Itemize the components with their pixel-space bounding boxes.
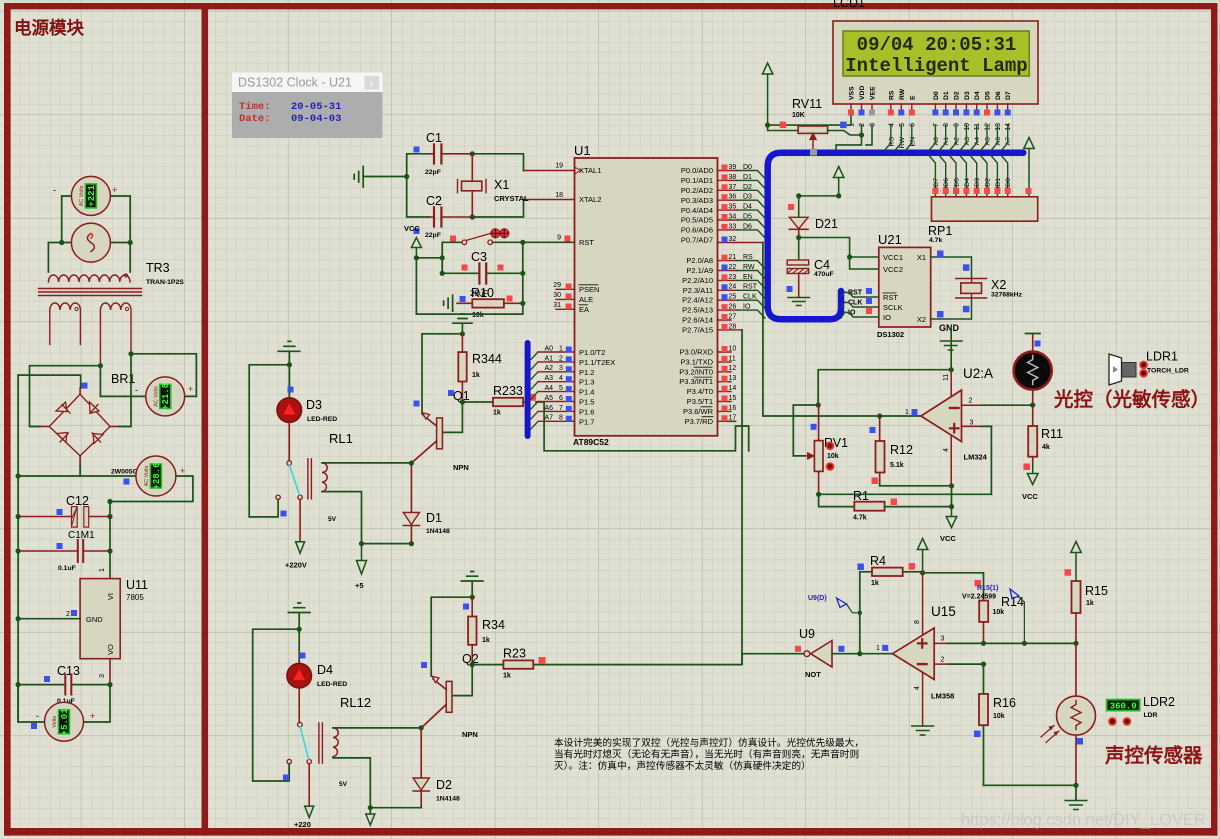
- svg-text:5V: 5V: [328, 516, 337, 523]
- svg-text:P0.1/AD1: P0.1/AD1: [681, 176, 713, 185]
- svg-text:37: 37: [729, 184, 737, 191]
- svg-text:P0.7/AD7: P0.7/AD7: [681, 236, 713, 245]
- NOT gate U9: [742, 627, 860, 679]
- svg-text:P3.4/T0: P3.4/T0: [687, 387, 713, 396]
- resistor R15: [1072, 581, 1108, 643]
- capacitor C12: [16, 494, 113, 541]
- wire A5 to P37 row: [536, 402, 749, 451]
- svg-text:RW: RW: [899, 88, 906, 100]
- border frame left: [4, 3, 11, 836]
- LED D4: [287, 629, 347, 722]
- P2 net labels: [743, 254, 758, 311]
- svg-text:10: 10: [729, 345, 737, 352]
- wire meter2 left: [100, 366, 146, 397]
- resistor R34: [468, 597, 505, 664]
- svg-text:+220V: +220V: [285, 561, 307, 570]
- svg-text:TR3: TR3: [146, 261, 170, 275]
- svg-text:x: x: [369, 78, 374, 88]
- wire VCC to R14: [923, 573, 984, 601]
- wire P27 down: [741, 330, 743, 665]
- P0 pin numbers: [729, 164, 737, 243]
- P1 state squares: [566, 347, 572, 422]
- gray square bus VEE: [810, 149, 817, 156]
- svg-text:RS: RS: [888, 90, 895, 100]
- photoresistor LDR2: [1041, 643, 1096, 785]
- svg-text:D0: D0: [743, 164, 752, 171]
- svg-text:D6: D6: [743, 223, 752, 230]
- photoresistor LDR1: [1014, 334, 1052, 408]
- svg-text:D3: D3: [964, 91, 971, 100]
- svg-text:IO: IO: [743, 304, 751, 311]
- svg-text:32: 32: [729, 236, 737, 243]
- resistor R233: [462, 384, 536, 417]
- LCD state squares: [848, 110, 854, 116]
- P0 net labels D0-D6: [743, 164, 752, 230]
- wire emitter Q2: [431, 597, 472, 676]
- svg-text:NOT: NOT: [805, 670, 821, 679]
- svg-text:R10: R10: [471, 286, 494, 300]
- svg-text:18: 18: [555, 192, 563, 199]
- svg-text:GND: GND: [939, 323, 960, 333]
- opamp U2:A: [905, 366, 1033, 486]
- svg-text:DS1302 Clock - U21: DS1302 Clock - U21: [238, 76, 352, 90]
- svg-text:Time:: Time:: [239, 101, 271, 113]
- resistor R1: [853, 489, 952, 522]
- resistor R14: [979, 595, 1024, 643]
- wire RL12 bottom row: [370, 808, 421, 814]
- svg-text:R4: R4: [870, 554, 886, 568]
- svg-text:XTAL2: XTAL2: [579, 195, 601, 204]
- wire C1C2 left column: [372, 154, 429, 217]
- svg-text:+220: +220: [294, 820, 311, 829]
- svg-text:33: 33: [729, 223, 737, 230]
- svg-text:4: 4: [943, 448, 950, 452]
- svg-text:A3: A3: [545, 375, 554, 382]
- svg-text:2: 2: [941, 657, 945, 664]
- wire RV1 bottom row: [819, 426, 992, 506]
- svg-text:https://blog.csdn.net/DIY_LOVE: https://blog.csdn.net/DIY_LOVER: [961, 811, 1206, 829]
- svg-text:Intelligent Lamp: Intelligent Lamp: [845, 55, 1027, 77]
- resistor R12: [870, 413, 913, 480]
- svg-text:2W005G: 2W005G: [111, 469, 138, 476]
- wire D21 to U21 VCC: [799, 238, 879, 270]
- svg-text:RV11: RV11: [792, 97, 822, 111]
- svg-text:P1.5: P1.5: [579, 398, 594, 407]
- opamp U15: [860, 573, 1076, 726]
- svg-text:D6: D6: [995, 91, 1002, 100]
- svg-text:LDR2: LDR2: [1143, 695, 1175, 709]
- svg-text:P1.7: P1.7: [579, 417, 594, 426]
- chip U1 AT89C52: [573, 143, 718, 447]
- svg-text:470uF: 470uF: [814, 271, 834, 278]
- svg-text:EA: EA: [579, 305, 589, 314]
- RP1 state squares: [932, 188, 1010, 194]
- svg-text:9: 9: [557, 235, 561, 242]
- DC voltmeter (+28.6): [136, 456, 185, 496]
- U1 right P0 pin lines: [718, 171, 763, 243]
- node secondary: [98, 363, 103, 368]
- svg-text:LDR1: LDR1: [1146, 350, 1178, 364]
- svg-text:E: E: [909, 95, 916, 100]
- svg-text:25: 25: [729, 294, 737, 301]
- power VCC down arrow R11: [1027, 463, 1038, 485]
- svg-text:R1: R1: [853, 489, 869, 503]
- pot RV11: [768, 97, 862, 149]
- P1 net labels A0-A7: [545, 345, 554, 421]
- svg-text:7: 7: [559, 405, 563, 412]
- svg-text:+221: +221: [87, 185, 97, 207]
- LED D3: [277, 365, 337, 461]
- svg-text:2: 2: [859, 123, 866, 127]
- svg-text:P3.2/INT0: P3.2/INT0: [679, 367, 713, 376]
- svg-text:U9: U9: [799, 627, 815, 641]
- svg-text:R11: R11: [1041, 427, 1063, 441]
- wire bridge top feed: [18, 375, 81, 388]
- P0 wire to bus: [737, 171, 765, 238]
- ground U21: [941, 327, 963, 370]
- resistor R23: [472, 647, 742, 680]
- relay RL1: [308, 431, 412, 544]
- svg-text:电源模块: 电源模块: [14, 18, 84, 38]
- svg-text:AC Volts: AC Volts: [79, 185, 85, 206]
- svg-text:10k: 10k: [472, 312, 484, 319]
- svg-text:4: 4: [888, 123, 895, 127]
- svg-text:8: 8: [943, 123, 950, 127]
- svg-text:D4: D4: [974, 91, 981, 100]
- ground below R10 inverted: [453, 314, 472, 334]
- svg-text:+: +: [112, 185, 117, 195]
- svg-text:4: 4: [559, 375, 563, 382]
- svg-text:RST: RST: [883, 293, 898, 302]
- svg-text:VCC: VCC: [940, 534, 956, 543]
- bridge rectifier BR1: [40, 388, 119, 466]
- svg-text:X1: X1: [494, 178, 509, 192]
- svg-text:光控（光敏传感）: 光控（光敏传感）: [1053, 388, 1210, 411]
- crystal X2: [931, 251, 1023, 320]
- svg-text:1: 1: [876, 645, 880, 652]
- svg-text:3: 3: [559, 365, 563, 372]
- wire emitter Q1: [422, 334, 462, 414]
- svg-text:P0.3/AD3: P0.3/AD3: [681, 196, 713, 205]
- svg-text:P0.2/AD2: P0.2/AD2: [681, 186, 713, 195]
- relay switch RL12 contact: [287, 722, 311, 806]
- svg-text:U11: U11: [126, 578, 148, 592]
- svg-text:X2: X2: [917, 315, 926, 324]
- svg-text:5V: 5V: [339, 781, 348, 788]
- svg-text:09-04-03: 09-04-03: [291, 113, 341, 125]
- svg-text:D2: D2: [985, 178, 992, 187]
- svg-text:10k: 10k: [827, 453, 839, 460]
- ground U15: [912, 726, 934, 735]
- LCD pin stubs: [851, 104, 1008, 110]
- transformer TR3 primary: [48, 275, 130, 282]
- node source left: [59, 240, 64, 245]
- transistor Q1: [411, 402, 468, 472]
- svg-text:AC Volts: AC Volts: [144, 465, 150, 486]
- svg-text:DS1302: DS1302: [877, 330, 904, 339]
- svg-text:35: 35: [729, 204, 737, 211]
- border frame bottom: [4, 828, 1218, 836]
- wire D3 bracket: [249, 365, 289, 517]
- state square bridge top: [82, 383, 88, 389]
- capacitor C11 0.1uF: [16, 540, 113, 572]
- wire R12 bottom: [880, 481, 952, 507]
- svg-text:LED-RED: LED-RED: [317, 681, 347, 688]
- svg-text:RL12: RL12: [340, 695, 371, 710]
- wire bridge bottom down: [79, 466, 81, 476]
- svg-text:GND: GND: [86, 615, 103, 624]
- svg-text:ALE: ALE: [579, 295, 593, 304]
- svg-text:P1.4: P1.4: [579, 388, 594, 397]
- svg-text:R344: R344: [472, 352, 502, 366]
- RP1 wires from bus: [929, 156, 1007, 197]
- svg-text:D5: D5: [743, 214, 752, 221]
- svg-text:D5: D5: [954, 178, 961, 187]
- svg-text:P2.4/A12: P2.4/A12: [682, 296, 713, 305]
- LCD wires into bus: [885, 125, 1008, 150]
- svg-text:16: 16: [729, 405, 737, 412]
- svg-text:A1: A1: [545, 355, 554, 362]
- svg-text:R15(1): R15(1): [977, 585, 998, 592]
- svg-text:Date:: Date:: [239, 113, 271, 125]
- svg-text:VCC: VCC: [1022, 492, 1038, 501]
- U1 right P2 pin lines: [718, 261, 743, 330]
- svg-text:C1M1: C1M1: [68, 530, 95, 541]
- svg-text:LED-RED: LED-RED: [307, 416, 337, 423]
- wire R1 junction VCC: [946, 507, 957, 528]
- svg-text:12: 12: [729, 365, 737, 372]
- svg-text:P0.0/AD0: P0.0/AD0: [681, 166, 713, 175]
- svg-text:D3: D3: [306, 398, 322, 412]
- svg-text:D21: D21: [815, 217, 838, 231]
- RP1 net labels rotated: [933, 178, 1012, 187]
- P1 pin numbers: [559, 345, 563, 421]
- svg-text:D4: D4: [743, 204, 752, 211]
- svg-text:20-05-31: 20-05-31: [291, 101, 341, 113]
- svg-text:30: 30: [553, 292, 561, 299]
- svg-text:D4: D4: [317, 663, 333, 677]
- svg-text:2: 2: [559, 355, 563, 362]
- svg-text:VCC1: VCC1: [883, 253, 903, 262]
- ground R34: [461, 572, 483, 598]
- resistor R344: [448, 334, 502, 402]
- svg-text:4: 4: [914, 686, 921, 690]
- svg-text:LM324: LM324: [964, 453, 988, 462]
- svg-text:3: 3: [970, 420, 974, 427]
- RP1 pin numbers rotated: [933, 187, 1012, 191]
- LCD net labels rotated: [888, 136, 1012, 148]
- svg-text:R15: R15: [1085, 584, 1108, 598]
- svg-text:17: 17: [729, 415, 737, 422]
- svg-text:26: 26: [729, 304, 737, 311]
- wire RST column: [416, 242, 522, 314]
- VCC arrow R15: [1071, 542, 1081, 582]
- relay switch RL1 contact: [276, 461, 302, 542]
- svg-text:3: 3: [870, 123, 877, 127]
- transistor Q2: [421, 665, 478, 739]
- regulator U11 7805: [16, 568, 149, 685]
- svg-text:U2:A: U2:A: [963, 366, 993, 381]
- svg-text:-: -: [36, 711, 39, 721]
- svg-text:19: 19: [555, 163, 563, 170]
- svg-text:10K: 10K: [792, 112, 805, 119]
- description text: [554, 736, 864, 772]
- wire bottom row LDR2: [984, 785, 1077, 800]
- svg-text:D7: D7: [1005, 91, 1012, 100]
- wire left rail: [17, 375, 19, 722]
- svg-text:RST: RST: [579, 238, 594, 247]
- power arrow below RL12: [366, 814, 375, 825]
- power +220V arrow RL12: [305, 806, 314, 818]
- svg-text:U1: U1: [574, 143, 591, 158]
- transformer TR3 secondary left: [50, 303, 81, 344]
- svg-text:8: 8: [914, 620, 921, 624]
- svg-text:A5: A5: [545, 395, 554, 402]
- svg-text:1: 1: [99, 568, 106, 572]
- diode D2: [413, 725, 460, 807]
- relay RL12: [319, 695, 421, 808]
- svg-text:1k: 1k: [482, 637, 490, 644]
- wire D4 bracket: [253, 629, 300, 781]
- svg-text:P1.1/T2EX: P1.1/T2EX: [579, 358, 615, 367]
- svg-text:EN: EN: [743, 274, 753, 281]
- VCC arrow bus right: [1024, 138, 1034, 197]
- P2 wire to bus: [737, 261, 765, 319]
- svg-text:IO: IO: [883, 313, 891, 322]
- capacitor C3: [442, 250, 523, 298]
- power +220V arrow RL1: [296, 542, 305, 554]
- svg-text:P2.5/A13: P2.5/A13: [682, 306, 713, 315]
- svg-text:23: 23: [729, 274, 737, 281]
- border frame right: [1211, 3, 1218, 836]
- node secondary right: [128, 351, 133, 356]
- ground C4: [788, 298, 810, 306]
- P1 bus taps: [531, 352, 538, 429]
- svg-text:P1.2: P1.2: [579, 368, 594, 377]
- AC voltmeter (+221): [53, 176, 117, 215]
- svg-text:R34: R34: [482, 618, 505, 632]
- svg-text:P0.4/AD4: P0.4/AD4: [681, 206, 713, 215]
- svg-text:P3.6/WR: P3.6/WR: [683, 407, 714, 416]
- svg-text:P1.3: P1.3: [579, 378, 594, 387]
- svg-text:VDD: VDD: [859, 86, 866, 100]
- wire R4 left drop: [859, 572, 861, 654]
- display 360.0: [1107, 695, 1175, 725]
- svg-text:4.7k: 4.7k: [853, 515, 867, 522]
- svg-text:11: 11: [974, 123, 981, 130]
- svg-text:24: 24: [729, 284, 737, 291]
- svg-text:VI: VI: [106, 593, 115, 600]
- svg-text:5: 5: [899, 123, 906, 127]
- svg-text:29: 29: [553, 282, 561, 289]
- svg-text:RST: RST: [743, 284, 758, 291]
- capacitor C2: [414, 194, 473, 239]
- svg-text:15: 15: [729, 395, 737, 402]
- svg-text:P1.0/T2: P1.0/T2: [579, 348, 605, 357]
- svg-text:32768kHz: 32768kHz: [991, 292, 1023, 299]
- svg-text:D4: D4: [964, 178, 971, 187]
- svg-text:+: +: [188, 384, 193, 394]
- svg-text:R233: R233: [493, 384, 523, 398]
- svg-text:D0: D0: [933, 91, 940, 100]
- svg-text:RP1: RP1: [928, 224, 952, 238]
- svg-text:V=2.24599: V=2.24599: [962, 594, 996, 601]
- svg-text:LM358: LM358: [931, 692, 954, 701]
- svg-text:LCD1: LCD1: [833, 0, 865, 10]
- tooltip DS1302 Clock: [232, 73, 383, 93]
- wire xtal rows: [472, 154, 523, 217]
- svg-text:P2.0/A8: P2.0/A8: [686, 256, 713, 265]
- chip U21 DS1302: [877, 232, 931, 339]
- capacitor C13: [16, 664, 113, 705]
- svg-text:SCLK: SCLK: [883, 303, 903, 312]
- P0 squares: [722, 165, 728, 230]
- svg-text:D1: D1: [943, 91, 950, 100]
- svg-text:NPN: NPN: [462, 730, 478, 739]
- node source right: [128, 240, 133, 245]
- respack RP1: [932, 197, 1038, 221]
- svg-text:AC Volts: AC Volts: [153, 386, 159, 407]
- svg-text:RW: RW: [743, 264, 755, 271]
- svg-text:21: 21: [729, 254, 737, 261]
- svg-text:D1: D1: [426, 511, 442, 525]
- svg-text:D3: D3: [974, 178, 981, 187]
- svg-text:A2: A2: [545, 365, 554, 372]
- svg-text:9: 9: [954, 123, 961, 127]
- svg-text:PSEN: PSEN: [579, 285, 599, 294]
- U1 right P3 pin lines: [718, 352, 736, 421]
- svg-text:14: 14: [729, 385, 737, 392]
- svg-text:38: 38: [729, 174, 737, 181]
- svg-text:P1.6: P1.6: [579, 407, 594, 416]
- svg-text:D3: D3: [743, 194, 752, 201]
- svg-text:C2: C2: [426, 194, 442, 208]
- svg-text:P3.0/RXD: P3.0/RXD: [680, 348, 714, 357]
- svg-text:P2.6/A14: P2.6/A14: [682, 316, 713, 325]
- svg-text:P0.6/AD6: P0.6/AD6: [681, 226, 713, 235]
- resistor R10: [457, 286, 523, 319]
- svg-text:13: 13: [729, 375, 737, 382]
- svg-text:4k: 4k: [1042, 444, 1050, 451]
- svg-text:2: 2: [66, 611, 70, 618]
- svg-text:C4: C4: [814, 258, 830, 272]
- svg-text:P2.1/A9: P2.1/A9: [686, 266, 713, 275]
- svg-text:C12: C12: [66, 494, 89, 508]
- VCC arrow U15: [917, 539, 927, 573]
- wire meter3 right loop: [110, 476, 193, 502]
- svg-text:NPN: NPN: [453, 463, 469, 472]
- svg-text:C1: C1: [426, 131, 442, 145]
- svg-text:6: 6: [559, 395, 563, 402]
- svg-text:U21: U21: [878, 232, 902, 247]
- transformer TR3 core: [39, 289, 142, 296]
- VCC arrow D21: [799, 167, 844, 196]
- svg-text:AT89C52: AT89C52: [573, 437, 609, 447]
- svg-text:6: 6: [909, 123, 916, 127]
- svg-text:R23: R23: [503, 647, 526, 661]
- U21 left pin labels: [848, 290, 863, 317]
- svg-text:CLK: CLK: [743, 294, 757, 301]
- ground D4: [288, 603, 310, 629]
- AC source VSINE: [71, 223, 110, 262]
- svg-text:22: 22: [729, 264, 737, 271]
- svg-text:声控传感器: 声控传感器: [1104, 744, 1203, 767]
- svg-text:7: 7: [933, 123, 940, 127]
- LCD display LCD1: [833, 21, 1038, 104]
- svg-text:P3.7/RD: P3.7/RD: [685, 417, 714, 426]
- svg-text:R12: R12: [890, 443, 913, 457]
- svg-text:D5: D5: [985, 91, 992, 100]
